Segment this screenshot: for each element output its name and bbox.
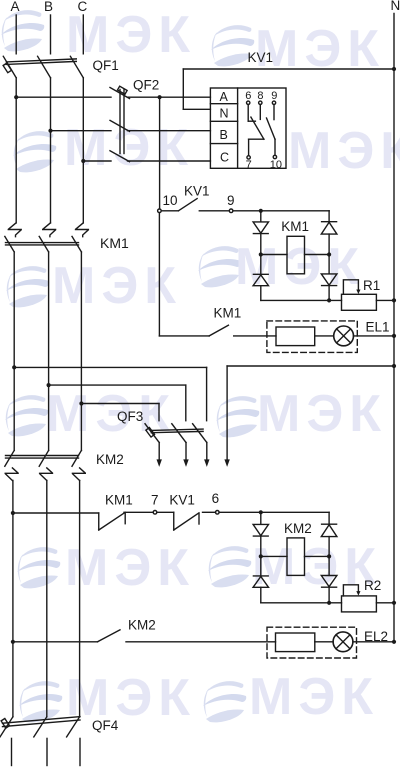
resistor R1	[342, 280, 377, 311]
svg-text:7: 7	[246, 159, 252, 171]
diode VD7	[253, 556, 268, 602]
wire contact to lamp unit EL1	[234, 335, 276, 337]
linkage KM2	[6, 456, 79, 459]
junction bridge2 bottom right	[327, 601, 331, 605]
svg-text:A: A	[11, 0, 20, 14]
wire phase A down to KM1	[15, 97, 17, 223]
wire phase C KM2 to QF4	[79, 481, 81, 717]
junction N at EL2	[392, 640, 396, 644]
wire neutral N bus	[393, 14, 395, 643]
junction QF3 wire A	[12, 365, 16, 369]
svg-text:6: 6	[245, 90, 251, 102]
svg-text:6: 6	[212, 491, 220, 506]
wire phase A to QF2	[16, 78, 111, 97]
wire bridge 6 to KM2 bridge	[203, 511, 330, 515]
wire EL2 row	[13, 641, 98, 643]
svg-text:QF3: QF3	[117, 409, 143, 424]
wire phase A top	[15, 15, 17, 54]
svg-text:EL2: EL2	[364, 629, 388, 644]
junction QF3 wire C	[79, 401, 83, 405]
svg-text:R2: R2	[364, 578, 381, 593]
contactor KM1 pole C	[72, 223, 88, 252]
arrow QF3 pole1	[157, 459, 162, 467]
svg-text:KM1: KM1	[281, 219, 309, 234]
arrow N feeder	[224, 459, 229, 467]
svg-text:KM2: KM2	[96, 452, 124, 467]
relay pin 6	[245, 90, 255, 121]
svg-text:N: N	[391, 0, 400, 13]
relay contact 10-9	[267, 118, 277, 159]
junction phase B	[48, 129, 52, 133]
junction QF3 wire B	[47, 383, 51, 387]
wire QF2 pole1 to relay A	[128, 96, 211, 98]
circuit breaker QF3	[145, 424, 207, 443]
relay pin 9	[271, 90, 277, 120]
arrow QF3 pole3	[204, 459, 209, 467]
wire bridge2 bottom	[261, 602, 342, 604]
svg-text:KM1: KM1	[100, 235, 129, 251]
junction N feeder	[392, 364, 396, 368]
svg-text:KV1: KV1	[169, 493, 195, 508]
svg-text:KV1: KV1	[248, 50, 274, 65]
svg-text:8: 8	[257, 90, 263, 102]
svg-text:B: B	[44, 0, 53, 14]
wire phase C to QF2	[83, 78, 111, 161]
wire B to QF3 pole2	[49, 385, 186, 421]
junction phase A	[14, 95, 18, 99]
circuit breaker QF4	[0, 717, 80, 737]
wire A to QF3 pole3	[14, 367, 206, 420]
svg-text:KM1: KM1	[214, 306, 242, 321]
wire phase B down to KM1	[50, 131, 52, 223]
relay U1 KV1 box	[210, 88, 286, 168]
wire phase A KM2 to QF4	[12, 481, 14, 717]
lamp EL1	[334, 326, 354, 346]
svg-text:KV1: KV1	[184, 184, 210, 199]
wire phase C down to KM1	[82, 161, 84, 223]
wire phase B KM2 to QF4	[46, 481, 48, 717]
wire resistor to lamp EL1	[315, 335, 334, 337]
svg-text:9: 9	[227, 193, 235, 208]
wire QF3 pole1 down	[158, 443, 160, 460]
wire QF4 stub A	[11, 738, 13, 765]
wire QF2 junction down to KV1 contact	[159, 97, 161, 209]
diode VD1	[253, 211, 268, 255]
svg-text:R1: R1	[363, 278, 380, 293]
svg-text:C: C	[220, 151, 229, 165]
svg-text:A: A	[220, 90, 229, 104]
wire bridge 7	[124, 511, 174, 531]
contactor KM1 pole B	[39, 223, 55, 252]
junction N at R2	[392, 601, 396, 605]
contactor KM2 pole A	[5, 450, 18, 480]
wire QF2 pole3 to relay C	[128, 160, 211, 162]
junction bridge1 top left	[259, 209, 263, 213]
wire phase C top	[82, 15, 84, 54]
lamp unit EL2 dashed box	[267, 627, 357, 658]
junction EL2 row phase A	[11, 640, 15, 644]
svg-text:KM2: KM2	[284, 521, 312, 536]
svg-text:QF4: QF4	[92, 718, 119, 733]
svg-text:KM1: KM1	[105, 493, 133, 508]
svg-text:9: 9	[271, 90, 277, 102]
svg-text:10: 10	[270, 159, 282, 171]
diode VD6	[321, 512, 337, 556]
relay contact 7-6	[247, 117, 264, 159]
contact KM1 aux EL1	[209, 325, 228, 336]
wire lamp EL2 to N	[353, 641, 394, 643]
svg-text:KM2: KM2	[128, 618, 156, 633]
wire resistor to lamp EL2	[315, 641, 333, 643]
wire KV1 node down to EL1 row	[159, 213, 209, 336]
diode VD2	[321, 211, 337, 255]
wire QF4 stub C	[79, 738, 81, 765]
wire QF3 pole2 down	[185, 443, 187, 460]
circuit breaker QF2	[110, 86, 130, 162]
ballast resistor EL1	[276, 327, 315, 346]
wire control row	[13, 513, 99, 530]
coil KM2	[261, 538, 329, 576]
junction bridge2 mid left	[259, 554, 263, 558]
contact KV1 nc	[174, 513, 199, 530]
wire phase C KM1 to KM2	[80, 252, 82, 451]
arrow QF3 pole2	[183, 459, 188, 467]
svg-text:10: 10	[163, 193, 178, 208]
svg-text:EL1: EL1	[366, 320, 390, 335]
contact KM1 nc	[99, 512, 125, 530]
resistor R2	[342, 585, 377, 612]
wire QF4 stub B	[46, 738, 48, 765]
junction phase C	[81, 159, 85, 163]
svg-text:C: C	[78, 0, 88, 14]
diode VD3	[253, 255, 268, 301]
junction QF2 pole1	[158, 95, 162, 99]
wire phase B top	[50, 15, 52, 54]
junction bridge1 mid right	[327, 252, 331, 256]
contactor KM2 pole C	[72, 450, 85, 480]
circuit breaker QF1	[3, 56, 83, 78]
relay pin 8	[257, 90, 263, 119]
diode VD8	[321, 556, 337, 602]
ballast resistor EL2	[276, 633, 315, 652]
lamp unit EL1 dashed box	[267, 321, 357, 353]
contact KV1 10-9	[158, 199, 233, 213]
wire N to relay coil	[183, 69, 394, 109]
contact KM2 aux	[98, 630, 121, 642]
wire KV1 contact to KM1 bridge	[233, 210, 329, 212]
wire QF3 pole3 down	[206, 443, 208, 460]
diode VD4	[321, 255, 337, 301]
junction N at R1	[392, 298, 396, 302]
wire N feeder branch	[227, 366, 394, 460]
svg-text:N: N	[220, 107, 229, 121]
junction control row phase A	[11, 511, 15, 515]
wire bridge1 bottom	[261, 299, 342, 301]
lamp EL2	[333, 632, 353, 652]
contactor KM1 pole A	[5, 223, 21, 252]
svg-text:QF2: QF2	[133, 78, 159, 93]
junction N top	[392, 67, 396, 71]
svg-text:QF1: QF1	[93, 58, 119, 73]
junction bridge1 mid left	[259, 252, 263, 256]
wire contact to lamp unit EL2	[126, 641, 276, 643]
wire lamp EL1 to N	[354, 335, 395, 337]
wire C to QF3 pole1	[81, 404, 159, 421]
wire phase B to QF2	[51, 78, 112, 131]
junction bridge2 mid right	[327, 554, 331, 558]
junction bridge2 top left	[259, 510, 263, 514]
diode VD5	[253, 512, 268, 556]
svg-text:B: B	[220, 128, 228, 142]
wire R1 to N	[376, 299, 394, 301]
linkage KM1	[6, 243, 79, 245]
junction bridge1 bottom right	[327, 298, 331, 302]
wire QF2 pole2 to relay B	[128, 130, 211, 132]
coil KM1	[261, 236, 329, 273]
wire phase A KM1 to KM2	[13, 252, 15, 451]
wire R2 to N	[376, 602, 394, 604]
wire phase B KM1 to KM2	[48, 252, 50, 451]
junction N at EL1	[392, 334, 396, 338]
contactor KM2 pole B	[39, 450, 52, 480]
svg-text:7: 7	[151, 493, 159, 508]
